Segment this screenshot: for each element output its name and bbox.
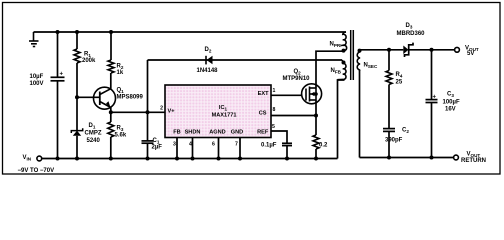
node: rail junction sense — [314, 157, 318, 161]
wire: REF line — [271, 131, 287, 143]
svg-text:GND: GND — [231, 130, 243, 136]
node: rail junction 0.1uF — [285, 157, 289, 161]
terminal VOUT — [455, 47, 460, 52]
svg-text:CMPZ: CMPZ — [85, 131, 102, 137]
wire: output line — [360, 49, 404, 51]
wire: C-in bottom lead — [57, 81, 59, 159]
svg-text:CS: CS — [259, 111, 267, 117]
wire: bottom input rail — [42, 158, 338, 160]
svg-text:1k: 1k — [117, 70, 124, 76]
node: emitter junction on V+ line — [109, 110, 113, 114]
node: secondary top dot — [358, 49, 362, 53]
svg-text:REF: REF — [257, 129, 269, 135]
svg-text:C1: C1 — [153, 138, 160, 145]
zener diode D1 CMPZ5240 — [76, 97, 78, 130]
wire: rail up to feedback winding bottom — [338, 80, 345, 159]
svg-text:IC1: IC1 — [219, 105, 228, 112]
node: top rail junction at R2 — [109, 30, 113, 34]
capacitor C-in 10uF 100V — [51, 77, 65, 81]
svg-text:+: + — [433, 94, 437, 100]
svg-text:5.6k: 5.6k — [115, 133, 127, 139]
svg-text:7: 7 — [235, 142, 238, 148]
svg-text:200k: 200k — [82, 58, 96, 64]
wire: CS line — [271, 115, 316, 117]
capacitor 0.1uF — [282, 143, 292, 145]
node: top rail junction at R1 — [75, 30, 79, 34]
node: rail junction SHDN — [191, 157, 195, 161]
svg-text:D3: D3 — [406, 23, 413, 30]
node: rail junction AGND — [217, 157, 221, 161]
IC1 MAX1771 box — [165, 85, 271, 138]
wire: output return rail — [360, 157, 454, 159]
ground — [29, 32, 39, 47]
svg-text:FB: FB — [173, 130, 180, 136]
svg-text:25: 25 — [396, 80, 403, 86]
svg-text:MTP9N10: MTP9N10 — [283, 76, 311, 82]
svg-text:5: 5 — [272, 124, 275, 130]
transistor Q1 MPS8099 — [94, 73, 116, 112]
svg-text:2µF: 2µF — [152, 145, 163, 151]
svg-text:2: 2 — [160, 106, 163, 112]
svg-text:+: + — [60, 72, 64, 78]
svg-text:0.1µF: 0.1µF — [261, 142, 277, 148]
svg-text:AGND: AGND — [209, 130, 225, 136]
svg-text:8: 8 — [273, 107, 276, 113]
terminal VOUT RETURN — [454, 155, 459, 160]
capacitor C3 100uF 16V — [431, 50, 433, 99]
svg-text:6: 6 — [212, 142, 215, 148]
resistor R2 1k — [110, 32, 112, 60]
node: rail junction GND — [238, 157, 242, 161]
node: output junction C3 — [430, 48, 434, 52]
wire: top ground rail — [34, 31, 347, 33]
MOSFET Q2 MTP9N10 — [302, 84, 322, 104]
node: feedback winding top dot — [342, 61, 346, 65]
diode D2 1N4148 — [205, 56, 207, 65]
wire: D2 cathode vertical — [147, 60, 149, 112]
terminal VIN — [37, 156, 42, 161]
svg-text:EXT: EXT — [258, 91, 269, 97]
svg-text:5V: 5V — [467, 51, 474, 57]
wire: R4 to C2 — [388, 85, 390, 129]
svg-text:100V: 100V — [30, 81, 44, 87]
svg-text:100µF: 100µF — [443, 100, 460, 106]
winding N SEC — [357, 52, 360, 70]
wire: source column to sense resistor — [315, 100, 317, 135]
node: return junction C2 — [387, 156, 391, 160]
node: top rail junction at C-in — [56, 30, 60, 34]
svg-text:C3: C3 — [447, 92, 454, 99]
svg-text:−9V TO −70V: −9V TO −70V — [18, 168, 55, 174]
node: CS junction — [314, 114, 318, 118]
svg-text:Q2: Q2 — [294, 69, 302, 76]
svg-text:4: 4 — [189, 142, 192, 148]
svg-text:MBRD360: MBRD360 — [397, 31, 426, 37]
svg-text:5240: 5240 — [87, 138, 101, 144]
svg-text:V+: V+ — [168, 109, 176, 115]
node: rail junction C1 — [146, 157, 150, 161]
wire: FB pin stub — [176, 138, 178, 159]
svg-text:1N4148: 1N4148 — [197, 68, 219, 74]
winding N FB — [338, 63, 347, 79]
capacitor C1 2uF — [147, 112, 149, 140]
svg-text:Q1: Q1 — [117, 88, 125, 95]
wire: base wire — [77, 96, 100, 98]
svg-text:D1: D1 — [89, 123, 96, 130]
wire: GND pin stub — [239, 138, 241, 159]
wire: AGND pin stub — [218, 138, 220, 159]
svg-text:3: 3 — [173, 142, 176, 148]
resistor R4 25 — [388, 50, 390, 71]
resistor Rsense 0.2 — [313, 135, 319, 149]
winding N PRI — [343, 32, 347, 51]
resistor R3 5.6k — [108, 122, 114, 137]
svg-text:NPRI: NPRI — [330, 42, 342, 49]
svg-text:10µF: 10µF — [30, 74, 44, 80]
svg-text:16V: 16V — [445, 107, 456, 113]
capacitor C2 390pF — [383, 129, 395, 132]
svg-text:390pF: 390pF — [385, 138, 403, 144]
wire: C-in top lead — [57, 32, 59, 77]
transformer core — [350, 30, 352, 80]
node: rail junction C-in — [56, 157, 60, 161]
node: base node — [75, 95, 79, 99]
svg-text:RETURN: RETURN — [461, 158, 486, 164]
node: primary bottom dot — [342, 49, 346, 53]
svg-text:NSEC: NSEC — [364, 63, 378, 70]
node: rail junction D1 — [75, 157, 79, 161]
wire: R1 bottom to base node — [76, 63, 78, 97]
wire: D2 feed line — [148, 59, 343, 61]
svg-text:0.2: 0.2 — [319, 142, 328, 148]
node: rail junction FB — [175, 157, 179, 161]
svg-text:R1: R1 — [84, 52, 91, 59]
node: return junction C3 — [430, 156, 434, 160]
svg-text:R4: R4 — [396, 72, 403, 79]
node: V+ junction at C1 — [146, 110, 150, 114]
wire: V+ line to IC — [111, 111, 165, 113]
svg-text:MPS8099: MPS8099 — [117, 95, 144, 101]
resistor R1 200k — [76, 32, 78, 49]
wire: drain column — [316, 51, 343, 88]
svg-text:C2: C2 — [402, 128, 409, 135]
node: output junction R4 — [387, 48, 391, 52]
svg-text:VOUT: VOUT — [467, 152, 481, 159]
border frame — [3, 3, 501, 175]
svg-text:VIN: VIN — [23, 155, 32, 162]
svg-text:R3: R3 — [117, 126, 124, 133]
wire: secondary bottom column — [359, 70, 361, 158]
svg-text:D2: D2 — [205, 47, 212, 54]
node: rail junction R3 — [109, 157, 113, 161]
wire: SHDN pin stub — [192, 138, 194, 159]
svg-text:NFB: NFB — [331, 68, 342, 75]
svg-text:SHDN: SHDN — [185, 130, 201, 136]
diode D3 MBRD360 — [403, 46, 408, 55]
wire: EXT to gate — [271, 94, 302, 96]
svg-text:MAX1771: MAX1771 — [212, 113, 237, 119]
svg-text:1: 1 — [273, 88, 276, 94]
